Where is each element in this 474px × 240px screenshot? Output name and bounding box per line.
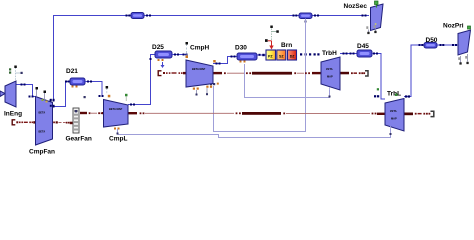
svg-text:Brn: Brn xyxy=(281,42,292,49)
node dots CmpH inlet xyxy=(174,54,188,56)
node dots CmpH bleed port xyxy=(210,83,219,86)
node dots NozPri inlet xyxy=(440,44,458,46)
svg-text:InEng: InEng xyxy=(4,111,22,118)
shaft HP free end symbol xyxy=(158,71,161,76)
svg-text:D45: D45 xyxy=(357,43,369,50)
wire D45 to TrbL xyxy=(372,54,385,100)
signal wire D30 bleed to TrbH xyxy=(245,64,330,98)
green port TrbL top xyxy=(395,94,398,97)
svg-text:ZETA: ZETA xyxy=(390,109,397,113)
shaft LP thick bar xyxy=(242,112,281,115)
bleed dots under D30 xyxy=(240,61,246,63)
port dot GearFan top xyxy=(75,110,77,112)
duct D30 xyxy=(237,53,257,60)
svg-text:DZ: DZ xyxy=(290,54,296,58)
stem ports above CmpFan xyxy=(36,87,48,103)
wire TrbL out to D50 xyxy=(404,45,424,97)
compressor CmpH xyxy=(186,60,213,87)
stem TrbH bottom xyxy=(329,87,331,98)
burner Brn xyxy=(266,50,297,60)
shaft Fan through CmpFan xyxy=(36,121,53,123)
bleed arrow under D25 xyxy=(161,62,165,68)
bleed dots under CmpL xyxy=(114,128,120,130)
svg-text:CmpFan: CmpFan xyxy=(29,149,55,156)
wire CmpL out to D25 xyxy=(128,55,155,105)
node dots TrbH out xyxy=(343,53,355,55)
duct D21 xyxy=(70,78,85,85)
svg-text:PZ: PZ xyxy=(268,54,273,58)
node dots Brn inlet xyxy=(259,54,265,56)
bleed stems under CmpH xyxy=(193,86,212,96)
node dots CmpH out xyxy=(216,56,236,65)
shaft LP right of TrbL xyxy=(404,113,413,116)
shaft HP right of CmpH xyxy=(213,72,222,74)
fuel connector above Brn xyxy=(265,26,279,50)
svg-text:D21: D21 xyxy=(66,68,78,75)
svg-text:CmpL: CmpL xyxy=(109,136,127,143)
svg-text:D25: D25 xyxy=(152,44,164,51)
stem CmpL bleed down xyxy=(117,129,119,134)
wire duct1 to duct2 xyxy=(144,15,299,17)
turbine TrbL xyxy=(385,99,404,132)
wire D50 to NozPri xyxy=(437,44,458,46)
inlet InEng xyxy=(0,66,23,108)
wire D25 to CmpH xyxy=(172,54,186,56)
svg-text:BETA MAP: BETA MAP xyxy=(192,67,206,71)
wire duct2 to NozSec xyxy=(312,15,369,17)
signal wire CmpH bleed to bypass duct2 xyxy=(214,19,306,132)
svg-text:TrbH: TrbH xyxy=(322,50,337,57)
svg-text:D50: D50 xyxy=(426,37,438,44)
stems under NozPri xyxy=(458,54,468,65)
duct bypass1 xyxy=(131,13,144,19)
signal wire CmpL bleed to TrbL xyxy=(118,129,391,138)
shaft Fan free end symbol xyxy=(12,120,15,125)
svg-text:BETA: BETA xyxy=(39,131,46,134)
duct bypass2 xyxy=(299,13,312,19)
node dots bypass wire xyxy=(126,15,367,17)
shaft Fan dash-dot to CmpFan xyxy=(19,121,36,123)
svg-text:MAP: MAP xyxy=(327,75,333,79)
svg-text:NozPri: NozPri xyxy=(443,23,464,30)
ports above CmpL xyxy=(106,86,128,101)
node dots TrbL out xyxy=(405,44,423,98)
wire TrbH to D45 xyxy=(340,53,357,55)
port dots top right CmpH xyxy=(213,60,216,63)
wire CmpFan core out to D21 xyxy=(53,82,71,107)
node dots InEng out xyxy=(21,84,34,98)
wire bypass fan to duct1 xyxy=(54,16,132,101)
stem TrbL bottom xyxy=(390,126,392,135)
svg-text:SZ: SZ xyxy=(279,54,284,58)
shaft HP through CmpH xyxy=(186,72,213,74)
svg-text:BETA: BETA xyxy=(39,112,46,115)
shaft Fan to GearFan xyxy=(53,122,55,124)
node dots fan ports xyxy=(50,81,70,108)
shaft HP thick bar xyxy=(252,72,292,75)
wire CmpH out to D30 xyxy=(213,57,237,64)
svg-text:CmpH: CmpH xyxy=(190,45,209,52)
wire D21 to CmpL xyxy=(85,82,102,97)
duct D50 xyxy=(424,43,437,49)
wire D30 to Brn xyxy=(257,54,266,56)
shaft HP through TrbH xyxy=(321,72,340,74)
duct D45 xyxy=(357,50,372,57)
svg-text:GearFan: GearFan xyxy=(66,136,92,143)
shaft LP through CmpL xyxy=(104,112,129,114)
nozzle NozSec xyxy=(371,1,384,31)
svg-text:NozSec: NozSec xyxy=(344,3,368,10)
shaft HP right of TrbH xyxy=(340,72,349,75)
svg-text:BETA MAP: BETA MAP xyxy=(109,107,123,111)
node dots fan outlet ports xyxy=(50,99,55,107)
shaft LP GearFan to CmpL xyxy=(80,112,87,114)
turbine TrbH xyxy=(321,57,340,90)
svg-text:D30: D30 xyxy=(235,45,247,52)
wire Brn to TrbH dotted xyxy=(300,53,320,55)
nozzle NozPri xyxy=(458,26,471,55)
compressor CmpL xyxy=(104,100,129,128)
node dots CmpL inlet xyxy=(87,81,104,98)
node dot under duct bypass2 xyxy=(305,21,307,23)
svg-text:MAP: MAP xyxy=(391,117,397,121)
node dots TrbL inlet xyxy=(373,53,379,98)
fan CmpFan xyxy=(36,97,53,146)
shaft LP right of CmpL xyxy=(128,112,137,114)
shaft LP end symbol xyxy=(429,113,431,115)
duct D25 xyxy=(155,51,172,58)
gearbox GearFan xyxy=(73,108,79,133)
wire InEng to CmpFan xyxy=(16,85,36,97)
svg-text:ZETA: ZETA xyxy=(326,67,333,71)
shaft HP end symbol xyxy=(363,72,365,74)
bleed dots under D25 xyxy=(158,59,164,61)
shaft LP through TrbL xyxy=(385,113,404,115)
stem above CmpH xyxy=(186,42,189,58)
bleed dots under D21 xyxy=(72,86,78,88)
stems under NozSec xyxy=(366,23,376,34)
shaft HP dash-dot left xyxy=(166,72,186,74)
svg-text:TrbL: TrbL xyxy=(387,91,401,98)
node dots CmpL out xyxy=(130,58,152,106)
